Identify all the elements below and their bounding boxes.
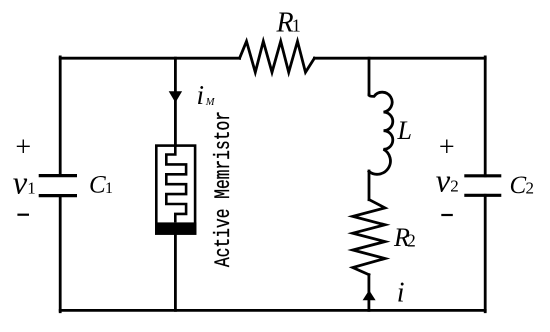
svg-text:2: 2 — [450, 177, 459, 196]
svg-text:L: L — [397, 116, 412, 145]
svg-text:2: 2 — [526, 178, 535, 197]
memristor bottom bar — [155, 222, 196, 234]
wire top-left segment — [60, 57, 239, 60]
svg-text:i: i — [397, 277, 405, 308]
wire left vertical lower — [59, 196, 62, 312]
wire right inner branch upper — [368, 58, 371, 95]
wire between L and R2 — [368, 171, 371, 200]
wire left vertical upper — [59, 57, 62, 176]
svg-text:+: + — [15, 132, 31, 163]
wire below R2 to bottom — [367, 275, 370, 311]
svg-text:1: 1 — [292, 16, 301, 36]
arrow iM (down) — [169, 91, 182, 102]
wire right vertical upper — [484, 57, 487, 176]
svg-text:1: 1 — [27, 178, 36, 197]
wire middle branch upper — [174, 58, 177, 145]
resistor R2 — [353, 200, 385, 275]
svg-text:M: M — [205, 97, 216, 108]
capacitor C1 plates — [39, 176, 77, 196]
resistor R1 — [240, 41, 315, 72]
svg-text:1: 1 — [105, 180, 113, 197]
memristor U1 box — [156, 146, 195, 234]
wire right vertical lower — [484, 195, 487, 311]
capacitor C2 plates — [464, 176, 501, 196]
svg-text:Active Memristor: Active Memristor — [211, 111, 236, 267]
svg-text:C: C — [510, 172, 527, 199]
svg-text:+: + — [439, 132, 455, 163]
svg-text:i: i — [197, 80, 205, 110]
wire bottom — [60, 309, 485, 312]
arrow i (up) — [363, 290, 376, 300]
label minus right — [441, 214, 453, 216]
svg-text:C: C — [89, 172, 106, 199]
label minus left — [17, 214, 29, 216]
label Active Memristor (vertical) — [211, 111, 236, 267]
svg-text:v: v — [13, 166, 28, 202]
svg-text:2: 2 — [407, 230, 416, 250]
wire middle branch lower — [174, 234, 177, 311]
memristor meander — [166, 146, 186, 223]
svg-text:v: v — [436, 164, 451, 200]
inductor L — [369, 92, 393, 174]
wire top-right segment — [314, 57, 485, 60]
